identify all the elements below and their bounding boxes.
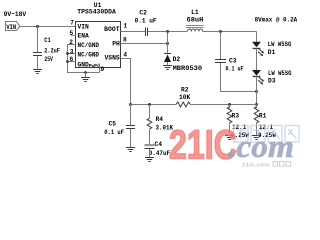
capacitor C1 <box>33 52 42 54</box>
svg-text:NC/GND: NC/GND <box>78 51 100 58</box>
svg-text:0.1 uF: 0.1 uF <box>135 18 157 25</box>
svg-text:ENA: ENA <box>78 32 90 39</box>
wire R3 upper lead <box>229 105 231 109</box>
svg-text:D1: D1 <box>268 49 276 56</box>
svg-text:TPS5430DDA: TPS5430DDA <box>77 9 116 16</box>
svg-text:0.47uF: 0.47uF <box>149 150 171 157</box>
node PH junction <box>166 42 169 45</box>
resistor R1 <box>254 107 259 123</box>
svg-text:R1: R1 <box>259 112 267 119</box>
node VIN-C1 junction <box>36 25 39 28</box>
wire pin2 stub <box>68 44 76 46</box>
node R4 junction <box>148 103 151 106</box>
svg-text:C1: C1 <box>44 37 51 44</box>
svg-text:1: 1 <box>123 23 127 30</box>
svg-text:LW W5SG: LW W5SG <box>268 70 292 77</box>
wire NC/GND connector vertical <box>67 44 69 73</box>
svg-text:R2: R2 <box>181 86 189 93</box>
node pin6 junction <box>66 60 69 63</box>
svg-text:BOOT: BOOT <box>104 26 120 33</box>
wire C1 lower lead <box>37 56 39 70</box>
ground below chip <box>81 77 90 79</box>
LED D1 arrows <box>258 49 263 55</box>
svg-text:LW W5SG: LW W5SG <box>268 41 292 48</box>
wire pin9 stub <box>99 68 101 73</box>
svg-text:VSNS: VSNS <box>105 54 120 61</box>
ground below C1 <box>33 69 42 71</box>
wire between D1 and D3 <box>256 49 258 71</box>
wire C3 lower lead to LED column <box>221 63 257 92</box>
port VIN tag <box>6 22 20 31</box>
capacitor C3 <box>215 59 226 61</box>
wire R3 lower lead <box>229 123 231 136</box>
wire D3 to sense rail <box>256 77 258 105</box>
svg-text:10K: 10K <box>179 94 191 101</box>
svg-text:9V~18V: 9V~18V <box>4 11 27 18</box>
wire D2 anode lead <box>167 62 169 66</box>
wire sense rail left <box>131 104 177 106</box>
svg-text:NC/GND: NC/GND <box>78 42 100 49</box>
svg-text:8: 8 <box>123 37 127 44</box>
node VSNS corner junction <box>129 103 132 106</box>
svg-text:2.2uF: 2.2uF <box>44 47 60 54</box>
node output C3 junction <box>219 30 222 33</box>
svg-text:5: 5 <box>70 30 74 37</box>
wire ENA stub <box>71 35 76 37</box>
wire L1 to output corner <box>203 31 257 33</box>
ground below C4 <box>145 157 154 159</box>
svg-text:0.1 uF: 0.1 uF <box>226 65 244 72</box>
node ground rail junction <box>84 71 87 74</box>
svg-text:7: 7 <box>70 20 74 27</box>
wire R1 lower lead <box>256 123 258 136</box>
svg-text:L1: L1 <box>191 9 199 16</box>
wire VSNS pin <box>121 59 131 105</box>
resistor R3 <box>227 107 232 123</box>
wire C3 upper lead <box>220 32 222 60</box>
svg-text:R3: R3 <box>232 112 240 119</box>
svg-text:C4: C4 <box>155 141 163 148</box>
svg-text:21ic.com: 21ic.com <box>242 163 270 169</box>
svg-text:VIN: VIN <box>78 23 90 30</box>
capacitor C2 <box>145 28 147 37</box>
wire C5 upper lead <box>130 105 132 126</box>
svg-text:2: 2 <box>69 39 73 46</box>
wire PH pin <box>121 43 168 45</box>
svg-text:9: 9 <box>101 66 105 73</box>
node C3-LED junction <box>255 90 258 93</box>
resistor R2 <box>176 102 190 107</box>
wire sense rail right <box>190 104 256 106</box>
svg-text:0.1 uF: 0.1 uF <box>104 129 124 136</box>
svg-text:.com: .com <box>228 129 294 164</box>
wire PH column <box>167 32 169 54</box>
resistor R4 <box>147 118 152 129</box>
chip U1 body <box>76 22 121 68</box>
wire chip ground rail <box>67 72 100 74</box>
wire top rail C2 to L1 <box>148 31 187 33</box>
wire C5 lower lead <box>130 129 132 148</box>
diode D2 <box>164 53 171 55</box>
svg-text:8Vmax @ 0.2A: 8Vmax @ 0.2A <box>255 17 298 24</box>
wire C1 upper lead <box>37 27 39 53</box>
svg-text:PH: PH <box>112 40 120 47</box>
ground below R3 <box>225 135 234 137</box>
svg-text:PwPd: PwPd <box>89 63 100 69</box>
svg-text:C5: C5 <box>109 120 117 127</box>
wire C4 lower lead <box>149 149 151 158</box>
capacitor C5 <box>126 125 135 127</box>
svg-text:3: 3 <box>70 48 74 55</box>
svg-text:GND: GND <box>78 62 90 69</box>
svg-text:68uH: 68uH <box>187 16 204 23</box>
svg-text:D2: D2 <box>173 56 181 63</box>
wire LED string column upper <box>256 32 258 42</box>
wire R4 upper lead <box>149 105 151 119</box>
node PH-column top junction <box>166 30 169 33</box>
svg-text:C3: C3 <box>229 57 237 64</box>
ground below D2 <box>163 65 172 67</box>
LED D3 arrows <box>258 77 263 83</box>
wire R4 to C4 <box>149 129 151 144</box>
wire ground stub <box>85 73 87 78</box>
inductor L1 <box>186 25 204 27</box>
watermark CJK box glyphs <box>234 126 299 143</box>
LED D3 <box>252 70 261 76</box>
wire pin3 stub <box>68 53 76 55</box>
wire VIN rail <box>20 26 76 28</box>
LED D1 <box>252 42 261 48</box>
ground below R1 <box>252 135 261 137</box>
svg-text:4: 4 <box>123 51 127 58</box>
capacitor C4 <box>145 144 155 146</box>
svg-text:C2: C2 <box>139 10 147 17</box>
node pin3 junction <box>66 52 69 55</box>
ground below C5 <box>126 147 135 149</box>
svg-text:25V: 25V <box>44 56 53 63</box>
node R3 junction <box>228 103 231 106</box>
wire pin6 stub <box>68 61 76 63</box>
wire BOOT to top rail <box>121 31 146 33</box>
svg-text:21IC: 21IC <box>169 122 237 167</box>
svg-text:D3: D3 <box>268 78 276 85</box>
svg-text:VIN: VIN <box>6 24 16 31</box>
wire R1 upper lead <box>256 105 258 109</box>
svg-text:MBR0530: MBR0530 <box>173 65 203 72</box>
svg-text:6: 6 <box>70 56 74 63</box>
svg-text:R4: R4 <box>156 116 164 123</box>
node LED column sense junction <box>255 103 258 106</box>
